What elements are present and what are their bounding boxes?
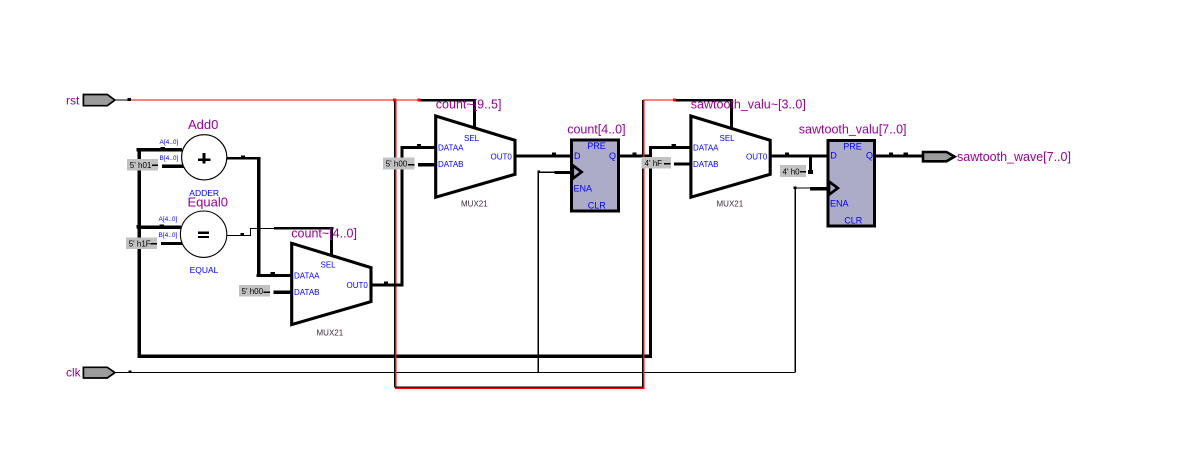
input pin clk [66, 365, 115, 379]
svg-text:sawtooth_valu~[3..0]: sawtooth_valu~[3..0] [691, 97, 806, 111]
wire feedback bus left vertical [138, 148, 141, 358]
wire feedback bus bottom horizontal [138, 354, 651, 357]
svg-text:SEL: SEL [720, 134, 736, 143]
svg-text:DATAA: DATAA [438, 144, 464, 153]
svg-text:rst: rst [66, 94, 80, 108]
svg-text:DATAA: DATAA [693, 144, 719, 153]
wire Equal0 output thin horizontal upper [250, 228, 274, 229]
mux U2 count~[9..5] MUX21 [436, 98, 515, 209]
svg-text:PRE: PRE [843, 141, 862, 151]
wire rst net black underlay right vertical [642, 100, 643, 387]
wire patch: MUX1 OUT0 over red vertical [393, 283, 399, 286]
svg-text:B[4..0]: B[4..0] [160, 155, 179, 162]
wire Add0 A input [138, 148, 182, 151]
wire Equal0 A input [138, 226, 181, 230]
svg-text:SEL: SEL [464, 134, 480, 143]
wire MUX1 DATAA [256, 274, 292, 277]
wire DFF2 D constant stub vertical [809, 154, 812, 174]
wire top thick segment to MUX3 SEL [673, 99, 733, 102]
register DFF2 sawtooth_valu[7..0] [799, 122, 907, 226]
svg-text:DATAB: DATAB [693, 160, 718, 169]
wire DFF1 clock thin vertical [538, 172, 539, 373]
wire vertical MUX1 OUT0 up to MUX2 DATAA [400, 146, 403, 287]
svg-text:D: D [830, 151, 837, 161]
junction cap at feedback vertical / Equal0 A wire [136, 225, 138, 229]
wire DFF2 clock thin vertical [795, 187, 796, 372]
wire Equal0 output step vertical [250, 228, 251, 236]
mux U3 sawtooth_valu~[3..0] MUX21 [691, 97, 806, 208]
svg-text:MUX21: MUX21 [317, 329, 344, 338]
register DFF1 count[4..0] [567, 122, 625, 211]
svg-text:A[4..0]: A[4..0] [159, 216, 178, 223]
wire MUX2 OUT0 to DFF1 D [514, 154, 572, 157]
junction dot on MUX2 DATAA wire [417, 144, 421, 146]
wire DFF2 Q output to pin [874, 155, 923, 158]
wire rst net highlighted red: top left horizontal [131, 99, 419, 100]
junction cap at feedback vertical / Add0 A wire [136, 148, 138, 152]
wire MUX1 DATAB [274, 291, 293, 294]
constant box 5'h00 (MUX2 DATAB) [383, 158, 415, 170]
svg-text:Add0: Add0 [188, 117, 218, 132]
junction dot on DFF1 D wire [552, 152, 556, 154]
svg-text:ENA: ENA [830, 199, 849, 209]
svg-text:5' h1F: 5' h1F [129, 240, 151, 249]
svg-text:SEL: SEL [321, 261, 337, 270]
svg-text:sawtooth_wave[7..0]: sawtooth_wave[7..0] [957, 150, 1071, 164]
junction dot on rst wire [128, 98, 131, 101]
junction dot on clk wire [129, 370, 132, 372]
svg-text:MUX21: MUX21 [717, 200, 744, 209]
wire MUX3 SEL stub vertical [730, 99, 733, 131]
svg-text:Q: Q [866, 151, 873, 161]
wire MUX3 DATAA [649, 146, 692, 149]
svg-text:count~[4..0]: count~[4..0] [291, 227, 357, 241]
wire rst pin to junction [115, 99, 129, 100]
corner dot DFF1 clock wire [537, 171, 540, 174]
svg-text:CLR: CLR [588, 200, 607, 210]
wire Add0 B input [162, 165, 184, 168]
constant box 4'hF (MUX3 DATAB) [641, 157, 671, 168]
junction dot red at right SEL branch [673, 98, 676, 101]
wire MUX1 OUT0 [370, 283, 404, 286]
wire thick to MUX1 SEL [274, 227, 333, 230]
svg-text:clk: clk [66, 365, 82, 379]
wire MUX2 DATAB [418, 163, 436, 166]
junction dot on MUX1 DATAA wire [271, 272, 276, 274]
svg-text:OUT0: OUT0 [746, 152, 768, 161]
wire feedback bus right vertical [649, 154, 652, 357]
mux U1 count~[4..0] MUX21 [291, 227, 371, 338]
wire rst net highlighted red: left vertical [395, 100, 396, 389]
svg-text:count[4..0]: count[4..0] [567, 122, 625, 136]
svg-text:PRE: PRE [587, 141, 606, 151]
svg-text:EQUAL: EQUAL [190, 265, 219, 275]
junction dot on DFF2 D wire [785, 152, 789, 154]
wire DFF1 Q output [619, 154, 651, 157]
junction dot on MUX1 OUT0 wire [384, 281, 388, 283]
svg-text:ENA: ENA [574, 184, 593, 194]
wire rst net highlighted red: right vertical [643, 100, 644, 389]
corner dot DFF2 clock wire [794, 187, 797, 190]
wire rst net black underlay left vertical [394, 100, 395, 387]
adder Add0 [160, 117, 227, 198]
svg-text:OUT0: OUT0 [491, 152, 513, 161]
junction dot on Equal0 output wire [241, 233, 244, 235]
constant box 5'h1F (Equal0 B input) [126, 238, 157, 249]
svg-text:B[4..0]: B[4..0] [159, 232, 178, 239]
wire vertical Add0 out down to MUX1 DATAA [257, 157, 261, 277]
svg-text:D: D [574, 151, 581, 161]
junction dot red at left vertical [393, 98, 396, 101]
junction dot on DFF2 Q wire 2 [904, 153, 908, 155]
junction dot on Add0 output wire [241, 156, 245, 158]
svg-text:DATAB: DATAB [294, 288, 319, 297]
svg-text:4' h0: 4' h0 [783, 167, 801, 176]
junction dot on Add0 A wire [161, 147, 166, 149]
svg-text:Equal0: Equal0 [188, 195, 228, 210]
wire DFF1 clock stub thick [554, 171, 571, 174]
junction dot red at SEL branch [418, 98, 421, 101]
wire clk run horizontal [115, 372, 795, 373]
junction dot on Equal0 A wire [160, 225, 165, 227]
wire DFF1 clock thin horizontal [538, 172, 556, 173]
wire top thick segment to MUX2 SEL [419, 99, 476, 102]
wire Equal0 B input [161, 242, 183, 245]
svg-text:DATAA: DATAA [294, 271, 320, 280]
wire rst net highlighted red: bottom horizontal [395, 388, 644, 389]
svg-text:count~[9..5]: count~[9..5] [436, 98, 502, 112]
svg-text:OUT0: OUT0 [347, 281, 369, 290]
wire DFF2 clock stub thick [810, 187, 827, 190]
svg-text:CLR: CLR [844, 216, 863, 226]
wire Equal0 output thin [226, 235, 251, 236]
wire MUX2 DATAA [400, 146, 436, 149]
wire rst net highlighted red: top right horizontal [643, 99, 675, 100]
wire MUX2 SEL stub vertical [473, 99, 476, 129]
junction dot on DFF2 Q wire 1 [889, 153, 893, 155]
svg-text:5' h00: 5' h00 [386, 160, 408, 169]
constant box 4'h0 (DFF2 D high bits) [780, 165, 806, 177]
svg-text:A[4..0]: A[4..0] [160, 139, 179, 146]
svg-text:Q: Q [609, 151, 616, 161]
constant box 5'h00 (MUX1 DATAB) [239, 285, 270, 297]
wire MUX3 DATAB [674, 162, 692, 165]
svg-text:5' h01: 5' h01 [130, 161, 152, 170]
wire rst net black underlay bottom horizontal [394, 387, 643, 388]
svg-text:MUX21: MUX21 [461, 200, 488, 209]
junction dot on MUX3 DATAA wire [672, 144, 676, 146]
output pin sawtooth_wave[7..0] [923, 150, 1071, 164]
wire MUX3 OUT0 to DFF2 D [769, 154, 828, 157]
svg-text:sawtooth_valu[7..0]: sawtooth_valu[7..0] [799, 122, 907, 136]
wire Add0 output [226, 157, 260, 160]
wire MUX1 SEL stub vertical [330, 227, 333, 257]
comparator Equal0 [159, 195, 228, 276]
svg-text:5' h00: 5' h00 [242, 287, 264, 296]
constant box 5'h01 (Add0 B input) [127, 159, 158, 170]
junction dot on DFF1 Q wire [632, 152, 636, 154]
svg-text:DATAB: DATAB [438, 160, 463, 169]
input pin rst [66, 94, 115, 108]
svg-text:4' hF: 4' hF [645, 159, 663, 168]
wire step vertical at DFF1 Q [649, 146, 652, 157]
wire DFF2 clock thin horizontal [796, 187, 811, 188]
